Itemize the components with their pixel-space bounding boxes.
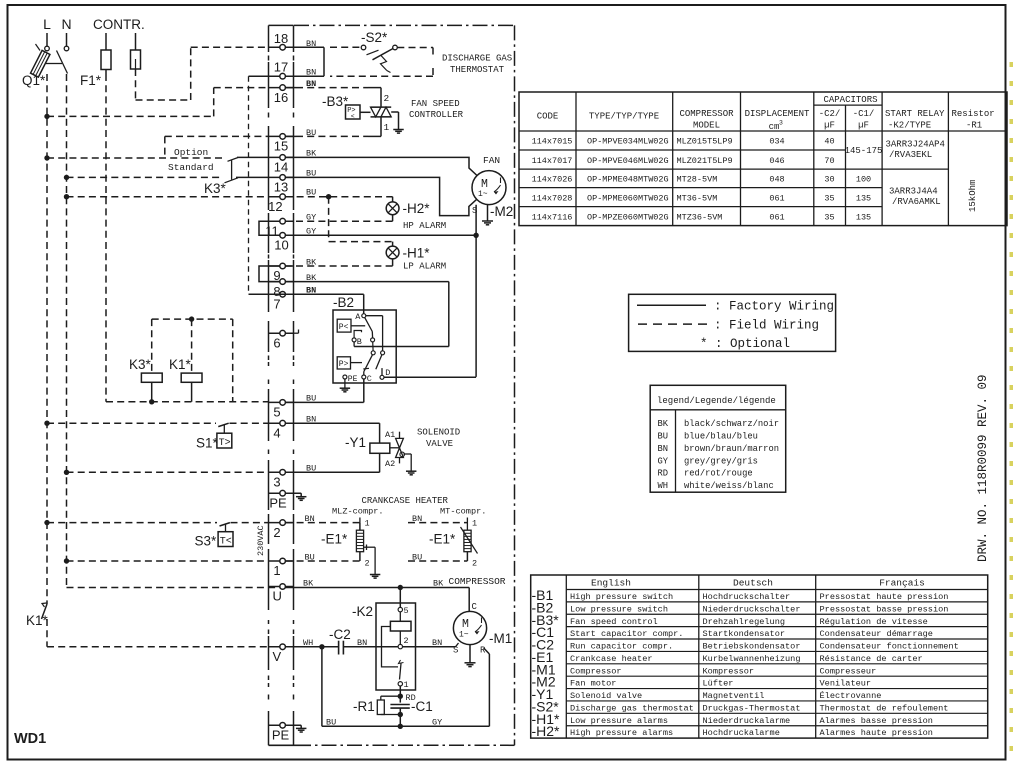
svg-text:LP ALARM: LP ALARM	[403, 262, 446, 272]
terminal 1	[269, 558, 294, 578]
svg-text:MLZ-compr.: MLZ-compr.	[332, 507, 384, 517]
svg-text:-B2: -B2	[333, 295, 354, 310]
svg-text:MLZ015T5LP9: MLZ015T5LP9	[677, 137, 733, 147]
svg-text:3: 3	[273, 475, 280, 490]
svg-text:MT28-5VM: MT28-5VM	[677, 175, 718, 185]
wire 10 GY to fan terminal	[285, 227, 476, 237]
svg-text:-R1: -R1	[353, 699, 375, 714]
svg-text:µF: µF	[858, 121, 869, 131]
wire Option L to K3 switch	[47, 157, 226, 159]
scan perforation marks right edge	[1010, 62, 1014, 751]
svg-text:MTZ36-5VM: MTZ36-5VM	[677, 212, 723, 222]
table header text	[537, 95, 995, 132]
K2 relay coil	[390, 612, 411, 645]
ground at terminal PE (upper)	[285, 493, 306, 500]
terminal PE2	[269, 723, 294, 743]
terminal 7	[269, 292, 294, 312]
wire L vertical (field)	[46, 74, 48, 604]
B2 link A to right pair	[366, 316, 383, 351]
table row 114x7017	[532, 156, 835, 166]
legend: wiring styles box	[629, 294, 836, 351]
jumper 11-10 (left)	[259, 221, 280, 235]
svg-text:T>: T>	[219, 438, 231, 449]
svg-text:Hochdruckschalter: Hochdruckschalter	[703, 592, 791, 602]
svg-text:1: 1	[365, 519, 370, 529]
run capacitor C2	[339, 641, 344, 655]
valve symbol	[390, 432, 405, 464]
ground (fan M2)	[482, 204, 493, 224]
svg-text:CODE: CODE	[537, 112, 559, 122]
svg-text:DISCHARGE GAS: DISCHARGE GAS	[442, 54, 512, 64]
B2 contact PE	[343, 375, 358, 384]
svg-text:Magnetventil: Magnetventil	[703, 691, 765, 701]
svg-text:K1*: K1*	[169, 357, 192, 372]
legend RD	[658, 469, 753, 479]
svg-text:13: 13	[274, 180, 288, 195]
component row -M2	[532, 674, 872, 690]
terminal strip rail X1	[268, 25, 270, 745]
terminal 12	[268, 194, 293, 214]
relay coil K1*	[181, 319, 202, 402]
svg-text:CAPACITORS: CAPACITORS	[823, 95, 877, 105]
svg-text:17: 17	[274, 60, 288, 75]
terminal V	[269, 644, 294, 664]
terminal 18	[269, 31, 294, 50]
svg-text:CONTR.: CONTR.	[93, 17, 145, 32]
wire B2 right to BK riser	[354, 342, 449, 347]
svg-text:brown/braun/marron: brown/braun/marron	[684, 444, 779, 454]
svg-text:red/rot/rouge: red/rot/rouge	[684, 469, 753, 479]
resistor R1	[377, 696, 400, 714]
svg-text:Standard: Standard	[168, 162, 214, 173]
svg-text:PE: PE	[272, 728, 290, 743]
table: compressor/capacitor selection	[519, 92, 1007, 226]
svg-text:1~: 1~	[478, 190, 488, 199]
svg-text:1: 1	[404, 680, 409, 690]
svg-text:A2: A2	[385, 459, 395, 469]
legend factory wiring	[637, 300, 834, 314]
svg-text:Compresseur: Compresseur	[820, 666, 877, 676]
svg-text:145-175: 145-175	[845, 146, 883, 156]
svg-text:-M1: -M1	[489, 631, 512, 646]
svg-text:SOLENOID: SOLENOID	[417, 428, 460, 438]
ground (B3 gate)	[391, 112, 404, 133]
svg-text:15: 15	[274, 139, 288, 154]
B2 contact C	[362, 374, 372, 384]
table row 114x7015	[532, 137, 835, 147]
terminal 8	[269, 279, 294, 299]
value 3ARR3J4A4/RVA6AMKL	[889, 187, 941, 208]
svg-text:Discharge gas thermostat: Discharge gas thermostat	[570, 703, 694, 713]
wire N to 12 (field)	[67, 196, 269, 198]
wire N to 1 (field)	[67, 560, 269, 562]
terminal 9	[269, 263, 294, 283]
component row -B1	[532, 587, 949, 603]
fuse F1	[101, 33, 111, 74]
wire 18 BN to S2	[285, 39, 361, 76]
svg-text:VALVE: VALVE	[426, 439, 453, 449]
wire B3 to 15 BU	[285, 128, 381, 138]
svg-text:30: 30	[824, 175, 834, 185]
svg-text:RD: RD	[658, 469, 669, 479]
svg-text:Fan motor: Fan motor	[570, 679, 616, 689]
svg-text:2: 2	[404, 636, 409, 646]
legend: colour codes box	[650, 385, 786, 492]
ground (valve)	[403, 454, 416, 475]
svg-text:cm: cm	[769, 122, 780, 132]
svg-text:BN: BN	[306, 39, 316, 49]
wire 13 BU to fan S	[285, 169, 476, 216]
svg-text:F1*: F1*	[80, 73, 102, 88]
svg-text:114x7017: 114x7017	[532, 156, 573, 166]
junction dots on N	[64, 175, 69, 564]
wire coil bottom rail to 5	[106, 399, 269, 404]
svg-text:-M2: -M2	[490, 204, 513, 219]
wire 4 BN to Y1 A1	[285, 414, 379, 443]
svg-text:DISPLACEMENT: DISPLACEMENT	[745, 109, 810, 119]
svg-text:K3*: K3*	[129, 357, 152, 372]
wire coil top rail	[152, 316, 233, 401]
wire B2 C to 5 BU	[285, 379, 363, 404]
L entry circle	[45, 46, 50, 51]
svg-text:114x7015: 114x7015	[532, 137, 573, 147]
svg-text:1: 1	[472, 519, 477, 529]
svg-text:OP-MPZE060MTW02G: OP-MPZE060MTW02G	[587, 212, 669, 222]
terminal U	[269, 584, 294, 604]
svg-text:-E1*: -E1*	[321, 532, 348, 547]
svg-text:15kOhm: 15kOhm	[968, 180, 978, 212]
terminal 15	[269, 134, 294, 154]
svg-text:Drehzahlregelung: Drehzahlregelung	[703, 617, 786, 627]
wire junction to H1	[329, 197, 393, 246]
wire L stub	[46, 33, 48, 46]
B2 contacts pair2	[371, 342, 384, 355]
component row -H2*	[532, 723, 933, 739]
wire N to 3 (field)	[67, 471, 269, 473]
svg-text:2: 2	[365, 559, 370, 569]
wire M1 R riser	[484, 648, 490, 726]
svg-text:114x7116: 114x7116	[532, 212, 573, 222]
svg-text:K1*: K1*	[26, 613, 49, 628]
terminal strip bottom cap	[269, 744, 312, 746]
wire 8 BK to B2	[285, 273, 448, 347]
svg-text:C: C	[472, 602, 478, 612]
contactor contact K1 (bottom left)	[42, 603, 48, 619]
legend BK	[658, 419, 780, 429]
svg-text:Betriebskondensator: Betriebskondensator	[703, 642, 801, 652]
solenoid coil Y1	[370, 443, 390, 453]
svg-text:legend/Legende/légende: legend/Legende/légende	[657, 396, 776, 406]
wire BU stub (E1 MT)	[408, 552, 467, 563]
wire link 17 to 7 (dashed riser)	[249, 76, 269, 294]
wire 17 BN	[285, 68, 324, 78]
B2 P&gt; sensor	[337, 357, 362, 369]
svg-text:Venilateur: Venilateur	[820, 679, 872, 689]
terminal 5	[269, 400, 294, 420]
svg-text:Fan speed control: Fan speed control	[570, 617, 658, 627]
B2 contact B	[352, 331, 362, 348]
terminal strip top cap	[269, 24, 294, 26]
svg-text:Français: Français	[879, 578, 925, 589]
wire H1 to 9 BK	[285, 257, 392, 267]
svg-text:2: 2	[384, 93, 390, 104]
svg-text:FAN: FAN	[483, 155, 500, 166]
wire S2 to corner (dashed loop)	[330, 48, 433, 77]
alarm lamp H1*	[386, 246, 399, 259]
value 3ARR3J24AP4/RVA3EKL	[886, 140, 945, 161]
ground tap (E1 MLZ)	[364, 545, 381, 579]
compressor motor M1	[453, 611, 486, 644]
wire 14 BK to fan	[285, 148, 477, 175]
svg-text:-C1/: -C1/	[853, 109, 875, 119]
legend field wiring	[638, 318, 819, 332]
wire K2 pin1 to RD node	[398, 686, 416, 703]
wire U BK to compressor C	[285, 579, 469, 612]
svg-text:046: 046	[769, 156, 784, 166]
svg-text:CONTROLLER: CONTROLLER	[409, 110, 464, 120]
svg-text:5: 5	[273, 405, 280, 420]
svg-text:Alarmes basse pression: Alarmes basse pression	[820, 716, 933, 726]
thermostat switch S1* (T&gt;)	[217, 423, 232, 449]
svg-text:WH: WH	[658, 481, 669, 491]
svg-text:black/schwarz/noir: black/schwarz/noir	[684, 419, 779, 429]
svg-text:Deutsch: Deutsch	[733, 578, 773, 589]
legend BN	[658, 444, 780, 454]
terminal 6	[269, 330, 294, 350]
breaker Q1*	[31, 44, 68, 77]
svg-text:OP-MPME060MTW02G: OP-MPME060MTW02G	[587, 193, 669, 203]
svg-text:-R1: -R1	[966, 121, 982, 131]
wire Standard N to K3 switch	[67, 176, 223, 178]
svg-text:English: English	[591, 578, 631, 589]
wire WH riser to bottom	[321, 647, 323, 727]
svg-text:1: 1	[384, 122, 390, 133]
svg-text:START RELAY: START RELAY	[885, 109, 945, 119]
svg-text:MLZ021T5LP9: MLZ021T5LP9	[677, 156, 733, 166]
svg-text:114x7026: 114x7026	[532, 175, 573, 185]
svg-text:P>: P>	[339, 360, 349, 369]
svg-text:T<: T<	[220, 536, 232, 547]
wire B2 D to fan riser	[384, 376, 476, 378]
wire riser fan terminal to B2 D	[473, 205, 478, 377]
svg-text:16: 16	[274, 90, 288, 105]
K2 pin 1	[398, 680, 409, 690]
svg-text:Start capacitor compr.: Start capacitor compr.	[570, 629, 683, 639]
svg-text:: Field Wiring: : Field Wiring	[714, 318, 819, 332]
wire V WH to K2 pin2 and M1 S	[285, 638, 458, 650]
crankcase heater E1* (MT) self-regulating	[461, 527, 478, 554]
svg-text:BN: BN	[306, 68, 316, 78]
B2 blade A-B	[365, 317, 373, 338]
wire 12 BU to H2	[285, 188, 392, 202]
svg-text:1: 1	[273, 563, 280, 578]
svg-text:Résistance de carter: Résistance de carter	[820, 654, 923, 664]
svg-text:14: 14	[274, 160, 288, 175]
svg-text:Crankcase heater: Crankcase heater	[570, 654, 653, 664]
svg-text:-H2*: -H2*	[532, 723, 561, 739]
B2 contact D	[380, 368, 390, 379]
svg-text:Condensateur fonctionnement: Condensateur fonctionnement	[820, 642, 959, 652]
svg-text:-C2/: -C2/	[819, 109, 841, 119]
svg-text:GY: GY	[658, 456, 669, 466]
component row -C2	[532, 637, 959, 653]
thermostat switch S3* (T&lt;)	[218, 523, 233, 548]
svg-text:Kompressor: Kompressor	[703, 666, 755, 676]
wire CONTR fuse to terminal 18	[136, 47, 269, 100]
svg-text:Thermostat de refoulement: Thermostat de refoulement	[820, 703, 949, 713]
svg-text:Hochdruckalarme: Hochdruckalarme	[703, 728, 780, 738]
svg-text:S1*: S1*	[196, 435, 219, 450]
svg-text:V: V	[272, 649, 281, 664]
svg-text:Pressostat haute pression: Pressostat haute pression	[820, 592, 949, 602]
table header English Deutsch Francais	[591, 578, 925, 589]
triac B3	[371, 107, 392, 136]
svg-text:048: 048	[769, 175, 784, 185]
wire L to 4 with S1	[47, 422, 269, 424]
wire N vertical (field)	[67, 74, 281, 588]
label SOLENOID VALVE	[417, 428, 460, 450]
svg-text:35: 35	[824, 193, 834, 203]
svg-text:-C1: -C1	[411, 699, 433, 714]
svg-text:Kurbelwannenheizung: Kurbelwannenheizung	[703, 654, 801, 664]
wire 1 BU to E1 pin2	[285, 552, 360, 563]
svg-text:K3*: K3*	[204, 181, 227, 196]
svg-text:D: D	[385, 368, 390, 378]
svg-text:Startkondensator: Startkondensator	[703, 629, 786, 639]
svg-text:3ARR3J4A4: 3ARR3J4A4	[889, 187, 938, 197]
svg-text:-K2/TYPE: -K2/TYPE	[888, 121, 931, 131]
svg-text:2: 2	[472, 559, 477, 569]
svg-text:-Y1: -Y1	[345, 435, 366, 450]
N entry circle	[64, 46, 69, 51]
svg-text:-H2*: -H2*	[403, 201, 431, 216]
wire 2 BN to E1 pin1	[285, 514, 360, 530]
ground (B2 PE)	[340, 379, 350, 392]
svg-text:Lüfter: Lüfter	[703, 679, 734, 689]
svg-text:BU: BU	[658, 432, 669, 442]
svg-text:Option: Option	[174, 147, 208, 158]
svg-text:114x7028: 114x7028	[532, 193, 573, 203]
svg-text:C: C	[367, 374, 372, 384]
wire F1 vertical (field)	[105, 74, 107, 402]
svg-text:061: 061	[769, 193, 784, 203]
svg-text:1~: 1~	[459, 631, 469, 640]
changeover contact K3	[225, 157, 269, 182]
svg-text:/RVA6AMKL: /RVA6AMKL	[892, 197, 941, 207]
relay coil K3*	[141, 319, 162, 402]
svg-text:5: 5	[404, 606, 409, 616]
svg-text:100: 100	[856, 175, 871, 185]
B2 contact mid-right	[371, 338, 375, 342]
svg-text:Compressor: Compressor	[570, 666, 622, 676]
svg-text:2: 2	[273, 525, 280, 540]
svg-text:High pressure switch: High pressure switch	[570, 592, 673, 602]
svg-text:Solenoid valve: Solenoid valve	[570, 691, 642, 701]
svg-text:Condensateur démarrage: Condensateur démarrage	[820, 629, 933, 639]
wire Y1 A2 to 3 BU	[285, 453, 379, 473]
svg-text:Alarmes haute pression: Alarmes haute pression	[820, 728, 933, 738]
svg-text:B: B	[357, 337, 362, 347]
svg-text:Low pressure switch: Low pressure switch	[570, 604, 668, 614]
K2 pin 5	[398, 588, 409, 617]
svg-text:grey/grey/gris: grey/grey/gris	[684, 456, 758, 466]
svg-text:OP-MPVE034MLW02G: OP-MPVE034MLW02G	[587, 137, 669, 147]
K2 internal contact	[382, 627, 404, 680]
machine boundary (dash-dot)	[294, 25, 515, 745]
component row -H1*	[532, 711, 933, 727]
table row 114x7028	[532, 193, 872, 203]
svg-text:12: 12	[268, 199, 282, 214]
svg-text:Régulation de vitesse: Régulation de vitesse	[820, 617, 928, 627]
svg-text:N: N	[61, 16, 71, 32]
legend BU	[658, 432, 758, 442]
wire H2 to 11 GY	[285, 212, 392, 222]
K2 pin 2	[398, 636, 409, 649]
svg-text:<: <	[351, 113, 355, 120]
svg-text:7: 7	[273, 297, 280, 312]
wire L to 2 with S3	[47, 522, 269, 524]
pressure sensor box B3	[346, 105, 371, 120]
svg-text:MT36-5VM: MT36-5VM	[677, 193, 718, 203]
svg-text:11: 11	[265, 223, 279, 238]
svg-text:L: L	[43, 16, 51, 32]
svg-text:U: U	[273, 589, 282, 604]
svg-text:18: 18	[274, 31, 288, 46]
thermostat S2*	[361, 45, 397, 72]
wire 16 BN to B3	[285, 79, 381, 107]
svg-text:061: 061	[769, 212, 784, 222]
svg-text:PE: PE	[348, 375, 358, 384]
B2 blade to D	[376, 355, 382, 376]
svg-text:6: 6	[273, 335, 280, 350]
svg-text:COMPRESSOR: COMPRESSOR	[449, 576, 506, 587]
svg-text:A1: A1	[385, 430, 395, 440]
svg-text:Niederdruckschalter: Niederdruckschalter	[703, 604, 801, 614]
terminal 3	[269, 470, 294, 490]
terminal 10	[269, 233, 294, 253]
junction dots on L	[44, 114, 49, 526]
svg-text:-E1*: -E1*	[429, 532, 456, 547]
svg-text:3ARR3J24AP4: 3ARR3J24AP4	[886, 140, 945, 150]
fan motor M2	[472, 171, 506, 205]
svg-text:THERMOSTAT: THERMOSTAT	[450, 65, 505, 75]
svg-text:MODEL: MODEL	[693, 121, 720, 131]
svg-text:Resistor: Resistor	[952, 109, 995, 119]
svg-text:-H1*: -H1*	[403, 246, 431, 261]
table: component descriptions	[531, 575, 988, 738]
svg-text:Électrovanne: Électrovanne	[820, 690, 882, 701]
component row -M1	[532, 661, 877, 677]
component row -S2*	[532, 698, 949, 714]
svg-text:: Factory Wiring: : Factory Wiring	[714, 300, 834, 314]
svg-text:MT-compr.: MT-compr.	[440, 507, 486, 517]
svg-text:BN: BN	[658, 444, 669, 454]
svg-text:Druckgas-Thermostat: Druckgas-Thermostat	[703, 703, 801, 713]
svg-text:P<: P<	[339, 323, 349, 332]
legend GY	[658, 456, 758, 466]
svg-text:-K2: -K2	[352, 604, 373, 619]
terminal 11	[265, 218, 293, 238]
svg-text:TYPE/TYP/TYPE: TYPE/TYP/TYPE	[589, 112, 659, 122]
start relay K2 body	[376, 603, 416, 690]
jumper 9-8 (left)	[259, 266, 280, 282]
wire N stub	[66, 33, 68, 46]
svg-text:Run capacitor compr.: Run capacitor compr.	[570, 642, 673, 652]
svg-text:CRANKCASE HEATER: CRANKCASE HEATER	[362, 496, 449, 506]
svg-text:4: 4	[273, 425, 280, 440]
terminal 14	[269, 155, 294, 175]
wire L to 16 (field)	[47, 88, 269, 117]
